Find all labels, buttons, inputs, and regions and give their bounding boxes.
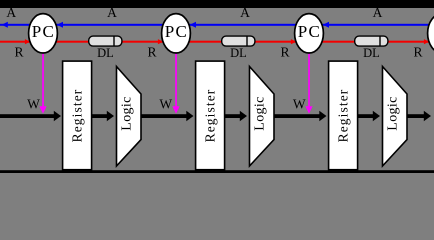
wire: datapath segment Register2 to Logic2 <box>225 114 242 118</box>
svg-text:A: A <box>373 5 383 20</box>
arrowhead into Register 3 <box>319 111 326 122</box>
svg-text:Register: Register <box>335 89 350 143</box>
wire: datapath segment Logic2 to Register3 <box>274 114 320 118</box>
svg-text:R: R <box>413 45 422 60</box>
svg-text:A: A <box>107 5 117 20</box>
red arrowhead into PC2 left <box>158 39 163 44</box>
bottom black bar <box>0 170 434 173</box>
red arrowhead into PC4 left <box>424 39 429 44</box>
svg-text:DL: DL <box>363 46 380 60</box>
svg-text:R: R <box>147 45 156 60</box>
register Register2 <box>196 61 225 170</box>
wire: magenta W line from PC3 <box>308 53 310 107</box>
logic block Logic1 <box>117 67 142 167</box>
delay latch DL2 <box>222 36 255 46</box>
wire: datapath segment Register3 to Logic3 <box>358 114 375 118</box>
blue arrowhead into PC2 right <box>190 22 196 28</box>
register Register1 <box>63 61 92 170</box>
svg-text:Register: Register <box>202 89 217 143</box>
arrowhead at datapath output <box>424 111 431 122</box>
svg-text:Register: Register <box>69 89 84 143</box>
PC ellipse 1 <box>29 14 58 53</box>
svg-text:PC: PC <box>165 22 189 41</box>
blue arrowhead at left edge <box>2 22 8 28</box>
wire: datapath segment Logic1 to Register2 <box>141 114 187 118</box>
wire: magenta W line from PC1 <box>42 53 44 107</box>
arrowhead into Logic 1 <box>107 111 114 122</box>
svg-text:Logic: Logic <box>385 96 400 130</box>
svg-text:DL: DL <box>230 46 247 60</box>
blue arrowhead into PC1 right <box>57 22 63 28</box>
PC ellipse 4 (partial at right edge) <box>428 14 434 53</box>
wire: thick black datapath segment 0 <box>0 114 55 118</box>
wire: magenta W line from PC2 <box>175 53 177 107</box>
PC ellipse 3 <box>295 14 324 53</box>
svg-text:Logic: Logic <box>252 96 267 130</box>
arrowhead into Logic 3 <box>373 111 380 122</box>
red arrowhead into PC1 left <box>25 39 30 44</box>
svg-text:W: W <box>293 96 306 111</box>
top black bar <box>0 0 434 8</box>
delay latch DL1 <box>89 36 122 46</box>
PC ellipse 2 <box>162 14 191 53</box>
arrowhead into Logic 2 <box>240 111 247 122</box>
svg-text:W: W <box>159 96 172 111</box>
blue arrowhead into PC3 right <box>323 22 329 28</box>
register Register3 <box>329 61 358 170</box>
delay latch DL3 <box>355 36 388 46</box>
svg-text:R: R <box>14 45 23 60</box>
svg-text:PC: PC <box>32 22 56 41</box>
svg-text:A: A <box>6 5 16 20</box>
wire: datapath segment after Logic3 <box>407 114 425 118</box>
svg-text:DL: DL <box>97 46 114 60</box>
svg-text:PC: PC <box>298 22 322 41</box>
logic block Logic3 <box>383 67 408 167</box>
svg-text:Logic: Logic <box>119 96 134 130</box>
wire: datapath segment Register1 to Logic1 <box>92 114 109 118</box>
svg-text:W: W <box>27 96 40 111</box>
arrowhead into Register 2 <box>186 111 193 122</box>
arrowhead into Register 1 <box>54 111 61 122</box>
svg-text:A: A <box>240 5 250 20</box>
svg-text:R: R <box>280 45 289 60</box>
wire: blue A bus <box>0 24 434 26</box>
logic block Logic2 <box>250 67 275 167</box>
wire: red R bus <box>0 41 434 43</box>
red arrowhead into PC3 left <box>291 39 296 44</box>
